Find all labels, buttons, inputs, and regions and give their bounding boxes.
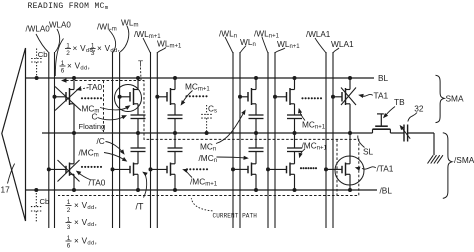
svg-text:BL: BL: [378, 73, 389, 83]
svg-text:SMA: SMA: [446, 94, 464, 104]
svg-text:READING FROM MCm: READING FROM MCm: [28, 2, 109, 11]
svg-text:2: 2: [66, 50, 70, 57]
svg-text:T: T: [138, 59, 143, 69]
svg-text:× Vdd,: × Vdd,: [74, 237, 97, 247]
svg-text:TA0: TA0: [88, 82, 103, 92]
svg-text:/BL: /BL: [380, 185, 393, 195]
svg-text:17: 17: [1, 184, 11, 194]
svg-text:TA1: TA1: [374, 91, 389, 101]
svg-text:Cb: Cb: [38, 50, 48, 59]
svg-text:Floating: Floating: [79, 122, 106, 131]
svg-text:6: 6: [67, 242, 71, 249]
svg-text:TB: TB: [394, 97, 405, 107]
svg-text:× Vdd,: × Vdd,: [67, 62, 90, 72]
svg-text:C: C: [92, 111, 98, 121]
svg-text:3: 3: [91, 50, 95, 57]
svg-text:/SMA: /SMA: [454, 155, 474, 165]
svg-text:3: 3: [67, 224, 71, 231]
svg-text:/C: /C: [97, 136, 105, 146]
svg-text:SL: SL: [363, 147, 374, 157]
svg-text:/TA1: /TA1: [377, 163, 394, 173]
svg-text:CURRENT PATH: CURRENT PATH: [213, 212, 258, 219]
svg-text:32: 32: [414, 104, 424, 114]
svg-text:× Vdd,: × Vdd,: [74, 218, 97, 228]
svg-text:× Vdd,: × Vdd,: [74, 201, 97, 211]
svg-text:/WLA0: /WLA0: [26, 25, 51, 34]
svg-text:2: 2: [67, 207, 71, 214]
svg-text:6: 6: [61, 67, 65, 74]
svg-text:/TA0: /TA0: [89, 178, 106, 188]
svg-text:/WLA1: /WLA1: [306, 30, 331, 39]
svg-text:Cb: Cb: [40, 197, 50, 206]
svg-text:/T: /T: [136, 202, 144, 212]
svg-text:WLA1: WLA1: [331, 39, 354, 49]
svg-text:× Vdd,: × Vdd,: [97, 44, 120, 54]
svg-text:WLA0: WLA0: [49, 21, 71, 30]
